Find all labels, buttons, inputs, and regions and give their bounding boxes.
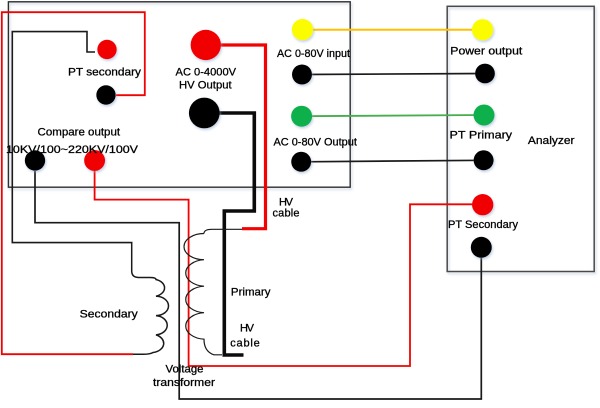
svg-text:PT Secondary: PT Secondary xyxy=(448,219,518,231)
terminal: Compare output + (red) xyxy=(84,150,105,171)
terminal: AC 0-4000V HV output - (black) xyxy=(189,98,220,129)
svg-text:Analyzer: Analyzer xyxy=(528,135,575,147)
wire: thin lead from primary winding top to red HV cable stub xyxy=(204,229,242,233)
terminal: Power output return (black) xyxy=(475,64,495,84)
wire: black neutral lead upper (AC 0-80V input to Power output return) xyxy=(302,74,485,75)
svg-text:Secondary: Secondary xyxy=(80,309,139,321)
svg-text:AC 0-80V input: AC 0-80V input xyxy=(277,48,350,60)
terminal: AC 0-80V input return (black) xyxy=(292,65,312,85)
svg-text:cable: cable xyxy=(230,337,260,349)
wire: red from Compare output red terminal to Analyzer PT Secondary red terminal xyxy=(95,171,473,366)
terminal: AC 0-80V output return (black) xyxy=(291,152,311,172)
svg-text:10KV/100~220KV/100V: 10KV/100~220KV/100V xyxy=(6,144,139,156)
svg-text:Compare output: Compare output xyxy=(38,126,121,138)
inductor: voltage transformer secondary winding xyxy=(132,243,169,355)
svg-text:HV: HV xyxy=(279,196,294,208)
svg-text:AC 0-4000V: AC 0-4000V xyxy=(176,66,237,78)
box: HV test source unit xyxy=(8,2,350,187)
terminal: PT Primary hot (green) xyxy=(474,105,495,126)
svg-text:Voltage: Voltage xyxy=(166,363,204,375)
wire: black neutral lead lower (AC 0-80V output to PT Primary return) xyxy=(301,160,483,162)
svg-text:transformer: transformer xyxy=(153,377,215,389)
svg-text:PT secondary: PT secondary xyxy=(68,67,142,79)
wire: green lead AC 0-80V output to PT Primary xyxy=(302,115,484,116)
wire: red loop from PT secondary black terminal around left edge to secondary winding bottom xyxy=(2,12,145,354)
svg-text:HV: HV xyxy=(240,323,255,335)
svg-text:AC 0-80V Output: AC 0-80V Output xyxy=(273,137,357,149)
svg-text:Power output: Power output xyxy=(450,45,522,57)
inductor: voltage transformer primary winding xyxy=(184,234,222,355)
box: Analyzer unit xyxy=(447,6,594,271)
terminal: AC 0-4000V HV output + (red) xyxy=(191,30,221,60)
wire: black from PT secondary red terminal to voltage transformer secondary top xyxy=(12,32,131,243)
terminal: AC 0-80V output hot (green) xyxy=(291,106,312,127)
svg-text:HV Output: HV Output xyxy=(179,79,232,91)
wire: yellow power lead AC 0-80V input to Power output xyxy=(303,29,483,31)
svg-text:cable: cable xyxy=(273,208,300,220)
terminal: Compare output - (black) xyxy=(25,150,45,170)
wire: HV cable black from HV output return to transformer primary bottom xyxy=(219,113,254,355)
terminal: PT Primary return (black) xyxy=(474,150,494,170)
terminal: AC 0-80V input hot (yellow) xyxy=(292,19,313,40)
terminal: PT secondary - (black) xyxy=(96,85,115,104)
terminal: Analyzer PT Secondary + (red) xyxy=(472,194,493,215)
svg-text:Primary: Primary xyxy=(231,287,271,299)
svg-text:PT Primary: PT Primary xyxy=(450,130,513,142)
terminal: Analyzer PT Secondary - (black) xyxy=(471,237,492,258)
terminal: PT secondary + (red) xyxy=(97,40,116,59)
terminal: Power output hot (yellow) xyxy=(472,19,493,40)
wire: HV cable red from AC 0-4000V HV output to transformer primary top xyxy=(220,45,266,229)
wire: black from Compare output black terminal to Analyzer PT Secondary black terminal xyxy=(35,171,481,399)
